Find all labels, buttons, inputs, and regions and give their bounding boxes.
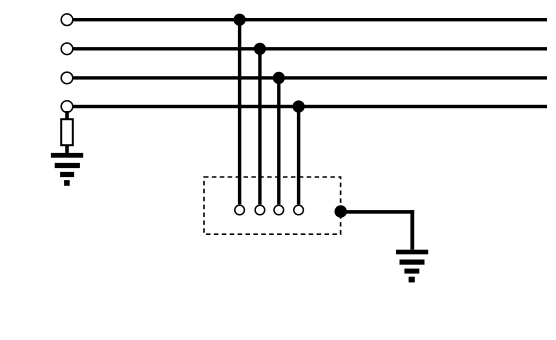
wire stem terminal 4 to resistor — [65, 111, 69, 120]
wire V3 vertical drop from line 3 — [277, 78, 280, 204]
pin P1 open circle in box — [235, 205, 245, 215]
wire L1 horizontal bus line 1 — [73, 18, 547, 21]
wire V2 vertical drop from line 2 — [258, 49, 261, 205]
node junction dot on box edge — [335, 205, 347, 217]
terminal T4 open circle line 4 — [61, 101, 73, 113]
pin P2 open circle in box — [255, 205, 265, 215]
terminal T1 open circle line 1 — [61, 14, 73, 26]
wire V4 vertical drop from line 4 — [297, 107, 300, 205]
node junction dot on line 2 — [254, 43, 266, 55]
wire L4 horizontal bus line 4 — [73, 105, 547, 108]
ground GND2 right earth symbol — [396, 250, 428, 283]
wire L2 horizontal bus line 2 — [73, 47, 547, 50]
node junction dot on line 3 — [273, 72, 285, 84]
terminal T2 open circle line 2 — [61, 43, 73, 55]
resistor R1 vertical body — [61, 119, 73, 145]
node junction dot on line 1 — [234, 14, 246, 26]
pin P4 open circle in box — [294, 205, 304, 215]
ground GND1 left earth symbol — [51, 153, 83, 186]
wire L3 horizontal bus line 3 — [73, 76, 547, 79]
wire V1 vertical drop from line 1 — [238, 20, 241, 205]
wire vertical ground stem right — [410, 210, 414, 250]
pin P3 open circle in box — [274, 205, 284, 215]
node junction dot on line 4 — [293, 100, 305, 112]
dashed enclosure box — [204, 177, 341, 234]
wire horizontal from box node to ground stem — [341, 210, 414, 214]
terminal T3 open circle line 3 — [61, 72, 73, 84]
wire stem resistor to ground — [65, 145, 69, 154]
